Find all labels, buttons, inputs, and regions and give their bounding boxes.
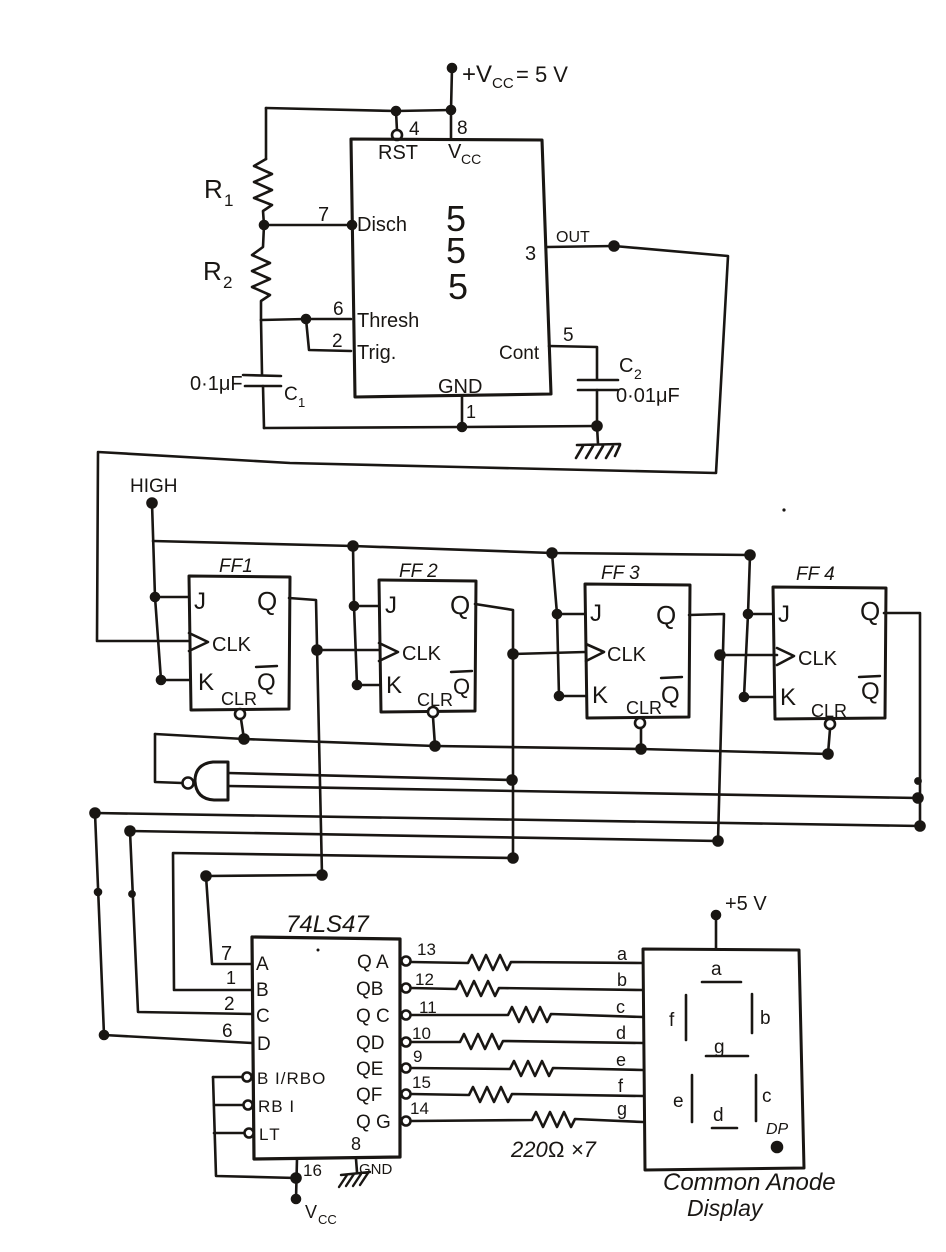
wire FF4 K stub: [744, 696, 773, 699]
svg-text:Q G: Q G: [356, 1112, 391, 1133]
svg-text:QE: QE: [356, 1059, 383, 1080]
pin 4 bubble on RST: [392, 130, 402, 140]
svg-text:Q: Q: [453, 674, 470, 699]
wire pin 2 Trig: [306, 319, 351, 351]
junction D bus corner dot: [91, 809, 100, 818]
svg-text:FF 4: FF 4: [796, 564, 835, 585]
junction FF4 J: [744, 610, 752, 618]
svg-text:R: R: [203, 256, 222, 286]
svg-text:8: 8: [351, 1134, 361, 1154]
QA bubble: [402, 957, 411, 966]
junction FF2 CLR on rail: [431, 742, 440, 751]
junction Thresh/Trig: [302, 315, 310, 323]
svg-text:FF 2: FF 2: [399, 561, 438, 582]
FF4 CLR bubble: [825, 719, 835, 729]
wire Vcc vertical to pin 8: [451, 68, 452, 139]
svg-text:a: a: [711, 959, 722, 980]
wire CLR rail: [155, 734, 828, 754]
NAND gate U2 body: [195, 762, 228, 800]
wire B bus to 74LS47: [173, 853, 513, 990]
svg-text:J: J: [778, 601, 790, 628]
junction FF3 CLR on rail: [637, 745, 646, 754]
segment c bar: [755, 1075, 758, 1121]
node +Vcc supply dot: [448, 64, 456, 72]
ink tick on FF4 bus vertical: [915, 778, 920, 783]
SECTION DISPLAY: [411, 893, 836, 1221]
svg-text:B I/RBO: B I/RBO: [257, 1069, 326, 1088]
wire FF2 CLK stub: [317, 649, 379, 652]
svg-text:Q: Q: [257, 669, 276, 696]
svg-text:7: 7: [318, 204, 329, 226]
QF bubble: [402, 1090, 411, 1099]
svg-text:0·01μF: 0·01μF: [616, 385, 680, 407]
svg-text:J: J: [194, 588, 206, 615]
wire OUT: [547, 246, 614, 247]
label FF4 Qbar: [861, 678, 880, 705]
junction D bus bottom corner dot: [100, 1031, 108, 1039]
svg-text:J: J: [385, 592, 397, 619]
wire bottom ground rail: [264, 426, 597, 428]
svg-text:R: R: [204, 174, 223, 204]
label FF3 Qbar: [661, 682, 680, 709]
junction C bus top corner dot: [126, 827, 135, 836]
junction FF4 Q bus corner: [916, 822, 925, 831]
resistor Rg wire: [411, 1112, 643, 1127]
svg-text:a: a: [617, 944, 628, 964]
junction FF4 CLK branch: [716, 651, 725, 660]
junction GND pin1: [458, 423, 466, 431]
svg-text:5: 5: [563, 325, 574, 346]
svg-text:5: 5: [448, 266, 468, 307]
tiny speck above FF3: [782, 508, 785, 511]
junction A bus corner dot: [202, 872, 211, 881]
wire FF4 dropper: [744, 555, 750, 697]
svg-text:K: K: [386, 672, 402, 699]
NAND output bubble: [183, 778, 194, 789]
wire FF3 dropper: [552, 553, 559, 696]
svg-text:Q: Q: [257, 586, 277, 616]
flip-flop FF1 box: [189, 576, 290, 710]
wire FF4 CLK stub: [720, 654, 777, 657]
wire pin 6 Thresh: [261, 319, 351, 320]
svg-text:K: K: [592, 682, 608, 709]
svg-text:B: B: [256, 980, 269, 1001]
wire pin 4 RST: [396, 111, 397, 131]
wire NAND input 2 (from FF4 Q): [228, 786, 918, 798]
svg-text:8: 8: [457, 118, 468, 139]
svg-text:+5 V: +5 V: [725, 893, 767, 915]
junction dropper FF2: [349, 542, 358, 551]
svg-text:FF 3: FF 3: [601, 563, 640, 584]
flip-flop FF3 box: [585, 584, 690, 718]
wire FF1 K stub: [161, 679, 189, 682]
svg-text:CLK: CLK: [402, 643, 442, 665]
svg-text:CC: CC: [318, 1212, 337, 1227]
junction R1/R2 node: [260, 221, 268, 229]
svg-text:12: 12: [415, 970, 434, 989]
svg-text:14: 14: [410, 1099, 429, 1118]
wire NAND input 1 (from FF2 Q): [228, 773, 512, 780]
svg-text:10: 10: [412, 1024, 431, 1043]
svg-text:Thresh: Thresh: [357, 310, 419, 332]
svg-text:Display: Display: [687, 1195, 764, 1221]
svg-text:GND: GND: [359, 1161, 393, 1178]
svg-text:+V: +V: [462, 61, 492, 88]
svg-text:CC: CC: [461, 151, 481, 167]
ground symbol below C2: [576, 426, 620, 458]
wire LT/RBI/BI common vertical: [213, 1077, 296, 1178]
wire FF4 CLR to rail: [828, 729, 830, 754]
svg-text:DP: DP: [766, 1121, 789, 1138]
label 555 digits: [446, 198, 468, 307]
junction FF1 K: [157, 676, 165, 684]
svg-text:Q: Q: [450, 590, 470, 620]
wire C1 bottom to ground rail: [263, 386, 264, 428]
junction dropper FF3: [548, 549, 557, 558]
wire FF2 J stub: [354, 605, 379, 608]
LT bubble: [245, 1129, 254, 1138]
label +Vcc = 5V: [462, 61, 568, 92]
resistor Ra wire: [411, 955, 643, 970]
FF2 CLR bubble: [428, 707, 438, 717]
label Vcc bottom: [305, 1202, 337, 1227]
junction C2/ground: [593, 422, 602, 431]
junction FF4 K: [740, 693, 748, 701]
svg-text:13: 13: [417, 940, 436, 959]
ground symbol 74LS47: [339, 1172, 370, 1187]
svg-text:K: K: [780, 684, 796, 711]
resistor R1: [254, 159, 272, 225]
wire R2 bottom to C1: [261, 320, 262, 374]
svg-text:CLK: CLK: [212, 634, 252, 656]
svg-text:CC: CC: [492, 75, 514, 92]
label R2: [203, 256, 232, 292]
svg-text:QF: QF: [356, 1085, 382, 1106]
svg-text:V: V: [305, 1202, 317, 1222]
svg-text:e: e: [616, 1050, 626, 1070]
junction OUT node: [610, 242, 619, 251]
wire NAND output to CLR rail: [155, 734, 182, 783]
resistor Re wire: [411, 1061, 643, 1076]
wire pin 16: [296, 1159, 297, 1199]
wire FF4 J stub: [748, 613, 773, 616]
svg-text:9: 9: [413, 1047, 422, 1066]
capacitor C2: [578, 380, 618, 390]
segment b bar: [751, 994, 754, 1033]
wire FF3 Q to FF4 CLK and down to C: [689, 614, 724, 841]
QC bubble: [402, 1011, 411, 1020]
svg-text:0·1μF: 0·1μF: [190, 373, 243, 395]
svg-text:= 5 V: = 5 V: [516, 62, 568, 87]
wire FF1 J stub: [155, 596, 189, 599]
segment d bar: [712, 1127, 737, 1130]
junction FF2 K: [353, 681, 361, 689]
wire FF4 Q down: [884, 613, 920, 826]
svg-text:7: 7: [221, 943, 232, 965]
junction FF2 Q bus corner: [509, 854, 518, 863]
svg-text:d: d: [616, 1023, 626, 1043]
FF3 CLK triangle: [586, 644, 604, 661]
wire D bus to 74LS47: [95, 813, 920, 1043]
junction Vcc pin16: [292, 1174, 301, 1183]
svg-text:6: 6: [222, 1021, 233, 1042]
SECTION 555 TIMER: [97, 61, 728, 641]
DP dot: [772, 1142, 782, 1152]
svg-text:220Ω ×7: 220Ω ×7: [510, 1137, 597, 1162]
wire FF2 K stub: [357, 684, 379, 687]
QD bubble: [402, 1038, 411, 1047]
svg-text:b: b: [760, 1008, 771, 1029]
svg-text:Q: Q: [661, 682, 680, 709]
svg-text:J: J: [590, 600, 602, 627]
svg-text:1: 1: [224, 191, 233, 210]
wire A bus to 74LS47: [206, 875, 322, 964]
wire GND pin 1: [461, 396, 464, 427]
svg-text:CLK: CLK: [607, 644, 647, 666]
svg-text:15: 15: [412, 1073, 431, 1092]
SECTION DECODER 74LS47: [213, 911, 437, 1227]
SECTION NAND / CLR: [155, 734, 918, 800]
junction NAND input1 on FF2 bus: [508, 776, 517, 785]
node Vcc bottom dot: [292, 1195, 300, 1203]
svg-text:f: f: [669, 1010, 675, 1031]
wire FF2 CLR to rail: [433, 717, 435, 746]
wire +5V to display: [715, 915, 718, 949]
flip-flop FF4 box: [773, 587, 886, 719]
svg-text:f: f: [618, 1076, 624, 1096]
svg-text:Common Anode: Common Anode: [663, 1169, 836, 1196]
IC U1 555 box: [351, 139, 551, 397]
svg-text:Q A: Q A: [357, 952, 389, 973]
FF3 CLR bubble: [635, 718, 645, 728]
FF1 CLK triangle: [189, 633, 208, 651]
svg-text:QB: QB: [356, 979, 383, 1000]
wire FF2 Q to FF3 CLK and down to B: [475, 604, 513, 858]
FF4 CLK triangle: [777, 648, 794, 665]
svg-text:QD: QD: [356, 1033, 385, 1054]
junction FF2 CLK branch: [313, 646, 322, 655]
svg-text:C: C: [256, 1006, 270, 1027]
segment a bar: [702, 981, 741, 984]
wire GND pin 8 stub: [356, 1159, 357, 1172]
svg-text:Cont: Cont: [499, 343, 540, 364]
svg-text:c: c: [762, 1086, 772, 1107]
wire FF1 Q to FF2 CLK and down to A: [289, 598, 322, 875]
wire C2 bottom: [596, 390, 599, 426]
svg-text:CLR: CLR: [221, 689, 257, 709]
wire BI/RBO stub: [213, 1076, 242, 1079]
junction FF2 J: [350, 602, 358, 610]
svg-text:D: D: [257, 1034, 271, 1055]
junction FF3 CLK branch: [509, 650, 518, 659]
wire FF3 CLK stub: [513, 652, 585, 654]
IC U3 74LS47 box: [252, 937, 400, 1159]
svg-text:Q C: Q C: [356, 1006, 390, 1027]
BI/RBO bubble: [243, 1073, 252, 1082]
svg-text:4: 4: [409, 119, 420, 140]
svg-text:Q: Q: [656, 600, 676, 630]
svg-text:GND: GND: [438, 376, 482, 398]
FF1 CLR bubble: [235, 709, 245, 719]
svg-text:CLR: CLR: [626, 698, 662, 718]
svg-text:1: 1: [298, 395, 305, 410]
svg-text:16: 16: [303, 1161, 322, 1180]
resistor Rf wire: [411, 1087, 643, 1102]
wire top rail to R1: [266, 108, 451, 111]
svg-text:RB I: RB I: [258, 1097, 295, 1116]
junction FF1 J: [151, 593, 159, 601]
label FF2 Qbar: [453, 674, 470, 699]
svg-text:e: e: [673, 1091, 684, 1112]
svg-text:LT: LT: [259, 1125, 282, 1144]
ink speck on D bus vertical: [95, 889, 101, 895]
svg-text:CLK: CLK: [798, 648, 838, 670]
wire pin 7 Disch: [264, 224, 352, 227]
wire down to R1: [265, 108, 268, 159]
QG bubble: [402, 1117, 411, 1126]
junction NAND input2 on FF4 bus: [914, 794, 923, 803]
svg-text:RST: RST: [378, 142, 418, 164]
segment e bar: [691, 1075, 694, 1122]
svg-text:5: 5: [446, 230, 466, 271]
svg-text:Q: Q: [861, 678, 880, 705]
svg-text:c: c: [616, 997, 625, 1017]
resistor Rd wire: [411, 1034, 643, 1049]
FF2 CLK triangle: [379, 643, 398, 661]
segment g bar: [706, 1055, 748, 1058]
svg-text:OUT: OUT: [556, 229, 590, 246]
svg-text:V: V: [448, 141, 462, 163]
wire FF3 CLR to rail: [640, 728, 643, 749]
junction FF4 CLR end: [824, 750, 833, 759]
junction pin4 branch: [392, 107, 400, 115]
svg-text:HIGH: HIGH: [130, 476, 178, 497]
junction FF1 Q bus corner: [318, 871, 327, 880]
junction dropper FF4: [746, 551, 755, 560]
wire FF3 K stub: [559, 695, 585, 698]
node +5V dot: [712, 911, 720, 919]
junction FF1 CLR on rail: [240, 735, 249, 744]
segment f bar: [685, 995, 688, 1040]
resistor R2: [252, 225, 270, 320]
svg-text:K: K: [198, 669, 214, 696]
svg-text:6: 6: [333, 299, 344, 320]
QE bubble: [402, 1064, 411, 1073]
wire pin 5 Cont to C2: [549, 346, 597, 379]
svg-text:1: 1: [226, 968, 236, 988]
svg-text:2: 2: [332, 331, 343, 352]
SECTION FLIPFLOPS: [91, 476, 925, 1043]
svg-text:d: d: [713, 1105, 724, 1126]
resistor Rc wire: [411, 1007, 643, 1022]
label FF1 Qbar: [257, 669, 276, 696]
wire C bus to 74LS47: [130, 831, 718, 1014]
capacitor C1: [243, 375, 281, 386]
RBI bubble: [244, 1101, 253, 1110]
QB bubble: [402, 984, 411, 993]
wire FF2 dropper: [353, 546, 357, 685]
junction FF3 Q bus corner: [714, 837, 723, 846]
svg-text:Q: Q: [860, 596, 880, 626]
svg-text:A: A: [256, 954, 269, 975]
ink speck on C bus vertical: [129, 891, 134, 896]
speck inside box: [317, 949, 320, 952]
label R1: [204, 174, 233, 210]
display DS1 box: [643, 949, 804, 1170]
label C1: [284, 384, 305, 410]
node HIGH dot: [148, 499, 157, 508]
svg-text:2: 2: [224, 994, 235, 1015]
svg-text:3: 3: [525, 243, 536, 265]
svg-text:Disch: Disch: [357, 214, 407, 236]
wire FF3 J stub: [557, 613, 585, 616]
svg-text:g: g: [617, 1099, 627, 1119]
flip-flop FF2 box: [379, 580, 476, 712]
svg-text:2: 2: [223, 273, 232, 292]
svg-text:Trig.: Trig.: [357, 342, 396, 364]
resistor Rb wire: [411, 981, 643, 996]
wire HIGH rail to FF droppers: [153, 541, 750, 555]
svg-text:74LS47: 74LS47: [286, 911, 370, 938]
junction FF3 K: [555, 692, 563, 700]
svg-text:C: C: [619, 355, 633, 377]
svg-text:1: 1: [466, 402, 476, 422]
svg-text:C: C: [284, 384, 298, 405]
wire LT stub: [214, 1132, 244, 1135]
wire OUT to right loop: [97, 246, 728, 641]
junction FF3 J: [553, 610, 561, 618]
junction pin8 top: [447, 106, 455, 114]
junction at pin 7: [348, 221, 356, 229]
svg-text:2: 2: [634, 366, 642, 382]
wire HIGH vertical dropper FF1: [152, 503, 161, 680]
label C2: [619, 355, 642, 382]
svg-text:b: b: [617, 970, 627, 990]
label Vcc pin name: [448, 141, 481, 167]
wire RBI stub: [214, 1104, 243, 1107]
svg-text:FF1: FF1: [219, 556, 253, 577]
wire FF1 CLR to clear rail: [241, 719, 244, 739]
